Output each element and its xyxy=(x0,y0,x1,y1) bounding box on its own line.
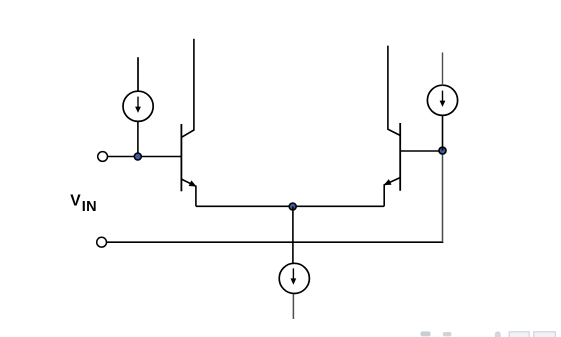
svg-text:IN: IN xyxy=(82,199,97,215)
transistor Q2 emitter arrow xyxy=(384,179,392,185)
label VIN xyxy=(70,192,97,215)
wire: center node down to tail current source xyxy=(292,207,294,264)
wire: left node up to current source I1 xyxy=(137,121,139,156)
wire: right node up to current source I2 xyxy=(442,115,444,150)
svg-text:V: V xyxy=(70,192,81,209)
transistor Q1 collector xyxy=(182,39,194,138)
current source I1 (left) xyxy=(123,91,153,121)
node B (emitter junction) xyxy=(289,203,296,210)
wire: stub above I2 xyxy=(442,52,444,85)
wire: stub below I3 xyxy=(292,294,294,319)
wire: bottom terminal across to corner (crosses tail wire, no junction) xyxy=(107,241,443,243)
transistor Q1 emitter xyxy=(182,179,196,206)
wire: left base node to Q1 base xyxy=(138,156,182,158)
wire: right node to Q2 base xyxy=(400,150,442,152)
transistor Q2 (right NPN, mirrored) base bar xyxy=(399,123,401,191)
node A (left base node) xyxy=(134,153,141,160)
current source I3 (tail, bottom) xyxy=(279,263,309,293)
wire: stub above I1 xyxy=(137,57,139,91)
watermark fragment (bottom right, cut off) xyxy=(421,331,556,337)
wire: corner up to right base node xyxy=(442,155,444,242)
current source I2 (right) xyxy=(427,85,457,115)
transistor Q2 collector xyxy=(388,46,400,136)
transistor Q2 emitter xyxy=(384,178,400,207)
node C (right base node) xyxy=(439,147,446,154)
transistor Q1 emitter arrow xyxy=(189,180,197,186)
wire: shared emitter rail to center node xyxy=(196,205,384,207)
wire: top terminal to left base node xyxy=(108,156,138,158)
input terminal (bottom, inverting) xyxy=(97,237,107,247)
transistor Q1 (left NPN) base bar xyxy=(180,124,182,191)
input terminal (top, non-inverting) xyxy=(98,152,108,162)
